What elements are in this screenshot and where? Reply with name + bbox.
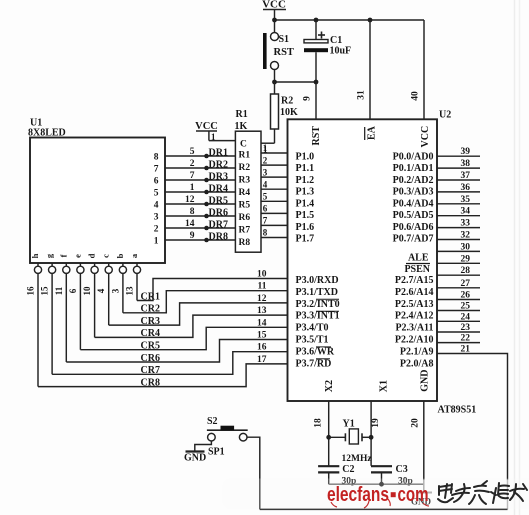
svg-text:17: 17 [257,355,267,365]
wire P2.0/A8 pin21 to bottom rail [260,354,508,510]
svg-text:9: 9 [190,231,195,241]
svg-text:14: 14 [185,219,195,229]
svg-text:4: 4 [263,179,268,189]
svg-text:P3.2/INT0: P3.2/INT0 [296,299,340,310]
svg-text:26: 26 [461,291,471,301]
svg-text:10K: 10K [280,107,298,118]
svg-text:d: d [87,253,97,258]
svg-text:C: C [240,140,247,150]
svg-text:8: 8 [154,153,159,163]
svg-text:P1.2: P1.2 [296,175,315,186]
watermark elecfans.com [327,484,429,508]
svg-text:P3.5/T1: P3.5/T1 [296,335,329,346]
svg-text:7: 7 [263,216,268,226]
svg-text:20: 20 [411,418,421,428]
svg-text:12: 12 [185,195,195,205]
svg-text:6: 6 [263,204,268,214]
svg-text:5: 5 [190,147,195,157]
ALE underline + PSEN overline [406,263,430,265]
svg-text:21: 21 [461,345,471,355]
svg-text:PSEN: PSEN [404,264,430,275]
svg-text:DR7: DR7 [209,220,228,231]
svg-text:R8: R8 [239,238,251,248]
svg-text:g: g [44,253,54,258]
U2 right pin stubs 39-21 [437,147,480,354]
svg-text:P1.5: P1.5 [296,210,315,221]
svg-text:30: 30 [461,242,471,252]
svg-text:7: 7 [190,171,195,181]
svg-text:P2.3/A11: P2.3/A11 [395,323,433,334]
svg-text:11: 11 [258,282,267,292]
svg-text:13: 13 [257,306,267,316]
resistor R2 10K [261,82,298,155]
svg-text:38: 38 [461,159,471,169]
svg-text:22: 22 [461,334,471,344]
svg-text:37: 37 [461,171,471,181]
wire VCC pin 40 [411,20,425,120]
crystal Y1 12MHz [329,419,373,465]
svg-text:GND: GND [184,453,206,464]
svg-text:1: 1 [190,183,195,193]
svg-text:19: 19 [371,418,381,428]
svg-text:P0.0/AD0: P0.0/AD0 [393,152,434,163]
U2 bottom pin names X2 X1 GND [324,370,431,393]
wire X2 pin 18 [314,401,332,466]
svg-text:15: 15 [257,331,267,341]
svg-text:RST: RST [311,126,322,146]
svg-text:P0.4/AD4: P0.4/AD4 [393,198,434,209]
svg-text:12MHz: 12MHz [342,454,373,464]
svg-text:12: 12 [257,294,267,304]
scan artifact lines [515,0,520,515]
svg-text:3: 3 [110,288,120,293]
svg-text:4: 4 [154,201,159,211]
svg-text:1: 1 [211,132,216,142]
svg-text:P3.3/INT1: P3.3/INT1 [296,311,340,322]
svg-text:5: 5 [263,192,268,202]
svg-text:1K: 1K [235,121,248,132]
svg-text:14: 14 [257,318,267,328]
svg-text:28: 28 [461,266,471,276]
svg-text:10: 10 [257,270,267,280]
svg-text:1: 1 [263,143,268,153]
power VCC (R1 common) [195,121,235,142]
svg-text:GND: GND [420,370,431,392]
svg-text:P2.5/A13: P2.5/A13 [395,299,434,310]
svg-text:18: 18 [314,418,324,428]
U2 right pin names ALE PSEN [404,253,430,276]
svg-text:f: f [58,254,68,257]
svg-text:P0.3/AD3: P0.3/AD3 [393,187,434,198]
U2 right pin names P2.7/A15-P2.0/A8 [395,275,434,369]
svg-text:Y1: Y1 [343,419,355,430]
svg-text:SP1: SP1 [208,447,225,458]
svg-text:R7: R7 [239,226,251,236]
svg-text:3: 3 [154,213,159,223]
svg-text:36: 36 [461,183,471,193]
watermark strip [222,479,529,510]
svg-text:35: 35 [461,195,471,205]
svg-text:25: 25 [461,302,471,312]
svg-text:VCC: VCC [420,126,431,148]
svg-text:2: 2 [154,225,159,235]
svg-text:h: h [30,253,40,258]
svg-text:R1: R1 [236,109,248,120]
svg-text:DR5: DR5 [209,196,228,207]
svg-text:2: 2 [263,155,268,165]
svg-text:23: 23 [461,323,471,333]
svg-text:DR8: DR8 [209,232,228,243]
U1 interior column letters h-a [30,253,139,258]
svg-text:P0.2/AD2: P0.2/AD2 [393,175,434,186]
svg-text:R6: R6 [239,213,251,223]
wire VCC rail [272,18,424,23]
svg-text:P2.1/A9: P2.1/A9 [400,346,434,357]
svg-text:R4: R4 [239,188,251,198]
ground (S2) [184,452,206,464]
svg-text:39: 39 [461,147,471,157]
svg-text:DR2: DR2 [209,160,228,171]
LED matrix U1 8X8LED [28,118,165,264]
svg-text:P1.3: P1.3 [296,187,315,198]
svg-text:X2: X2 [324,380,335,392]
svg-text:R3: R3 [239,176,251,186]
svg-text:C1: C1 [330,35,342,46]
svg-text:24: 24 [461,312,471,322]
svg-text:P1.1: P1.1 [296,163,315,174]
svg-text:P0.1/AD1: P0.1/AD1 [393,163,434,174]
svg-text:com: com [398,484,429,506]
svg-text:P1.0: P1.0 [296,152,315,163]
svg-text:P1.4: P1.4 [296,198,315,209]
svg-text:C3: C3 [396,464,408,475]
svg-text:P2.7/A15: P2.7/A15 [395,275,434,286]
svg-text:33: 33 [461,219,471,229]
svg-text:13: 13 [125,286,135,296]
wire GND pin 20 [411,401,424,492]
svg-text:P1.6: P1.6 [296,222,315,233]
svg-text:27: 27 [461,279,471,289]
svg-text:P2.0/A8: P2.0/A8 [400,358,434,369]
wire node RST [272,80,318,85]
svg-text:16: 16 [26,286,36,296]
svg-text:P0.7/AD7: P0.7/AD7 [393,234,434,245]
svg-text:DR4: DR4 [209,184,228,195]
svg-text:R1: R1 [239,151,251,161]
svg-text:elecfans: elecfans [327,484,389,506]
wire X1 pin 19 [369,401,381,466]
U2 left pin names P3.0-P3.7 [296,275,340,369]
svg-text:10: 10 [82,286,92,296]
power VCC (top) [262,0,286,20]
MCU U2 AT89S51 [288,110,477,416]
svg-text:AT89S51: AT89S51 [438,405,477,416]
svg-text:P2.2/A10: P2.2/A10 [395,335,434,346]
svg-text:29: 29 [461,254,471,264]
svg-text:11: 11 [54,286,64,295]
svg-text:2: 2 [190,159,195,169]
svg-text:DR6: DR6 [209,208,228,219]
U1 interior row numbers 8-1 [154,153,159,247]
svg-text:6: 6 [68,288,78,293]
wire EA to VCC rail, pin 31 [357,20,371,120]
svg-text:1: 1 [154,237,159,247]
svg-text:C2: C2 [342,464,354,475]
svg-text:RST: RST [274,47,294,58]
svg-text:b: b [115,253,125,258]
svg-text:5: 5 [154,189,159,199]
U2 top pin names RST EA VCC [311,125,431,147]
svg-text:S2: S2 [207,416,218,427]
svg-text:40: 40 [411,91,421,101]
svg-text:P3.1/TXD: P3.1/TXD [296,287,339,298]
svg-text:P3.0/RXD: P3.0/RXD [296,275,339,286]
svg-text:P3.7/RD: P3.7/RD [296,358,332,369]
svg-text:P2.6/A14: P2.6/A14 [395,287,434,298]
svg-text:P1.7: P1.7 [296,234,315,245]
svg-text:10uF: 10uF [330,46,352,57]
switch S1 (RST) [263,20,294,82]
wire RST to U2 pin 9 [303,82,317,120]
U2 right pin names P0.0/AD0-P0.7/AD7 [393,152,434,245]
svg-text:P3.4/T0: P3.4/T0 [296,323,329,334]
svg-text:P2.4/A12: P2.4/A12 [395,311,434,322]
resistor network R1 1K [235,109,262,252]
capacitor C3 30p [371,464,413,487]
svg-text:34: 34 [461,207,471,217]
svg-text:8: 8 [263,228,268,238]
svg-text:31: 31 [357,90,367,100]
svg-text:c: c [101,254,111,258]
switch S2 SP1 [207,416,248,458]
svg-text:32: 32 [461,231,471,241]
svg-text:P0.5/AD5: P0.5/AD5 [393,210,434,221]
capacitor C2 30p [318,464,356,487]
wires R1 to U2 P1 pins 1-8 [261,143,288,238]
wires U1 rows to R1 with net labels DR1-DR8 [165,147,235,243]
svg-text:6: 6 [154,177,159,187]
svg-text:e: e [72,254,82,258]
wire caps common rail [329,482,424,487]
svg-text:P0.6/AD6: P0.6/AD6 [393,222,434,233]
svg-text:U2: U2 [439,110,451,121]
svg-text:R5: R5 [239,201,251,211]
svg-text:S1: S1 [279,34,290,45]
EA overline [364,127,366,140]
svg-text:DR3: DR3 [209,172,228,183]
overlines INT0 INT1 WR RD [316,299,339,359]
svg-text:4: 4 [96,288,106,293]
svg-text:X1: X1 [379,380,390,392]
svg-text:ALE: ALE [408,253,429,264]
svg-text:DR1: DR1 [209,148,228,159]
capacitor C1 10uF [304,20,351,82]
nets CR1-CR8 to U2 P3 pins 10-17 [38,270,288,389]
svg-text:3: 3 [263,167,268,177]
wire S2 right to bottom rail [247,437,260,509]
ground (U2 pin 20) [411,493,432,507]
wires U1 bottom pins to CR nets [26,263,141,387]
svg-text:EA: EA [367,125,378,140]
wire S2 left to ground [195,441,212,451]
svg-text:15: 15 [40,286,50,296]
watermark chinese 电子发烧友 [438,481,527,504]
svg-text:16: 16 [257,343,267,353]
svg-text:9: 9 [303,96,313,101]
svg-text:R2: R2 [281,96,293,107]
svg-text:R2: R2 [239,163,251,173]
svg-text:P3.6/WR: P3.6/WR [296,346,335,357]
svg-text:8: 8 [190,207,195,217]
U2 left pin names P1.0-P1.7 [296,152,315,245]
svg-text:7: 7 [154,165,159,175]
